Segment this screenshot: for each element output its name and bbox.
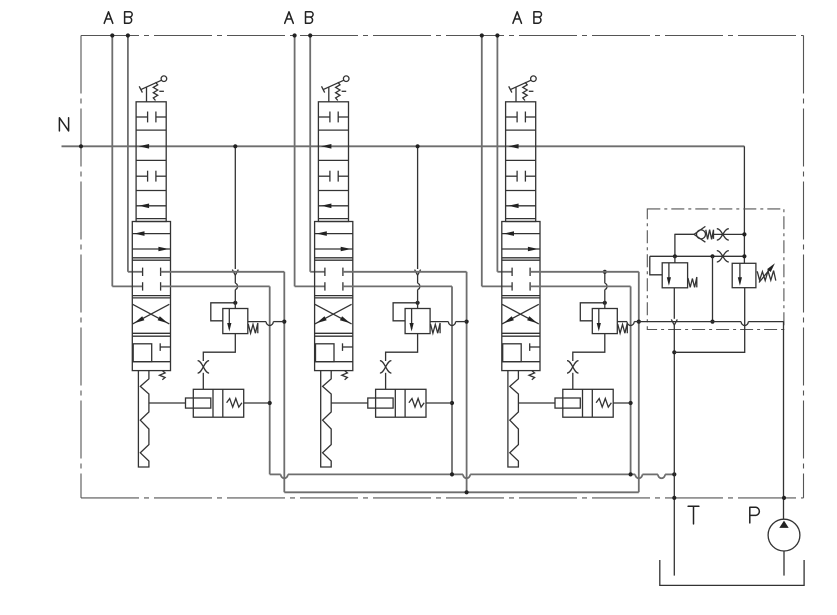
- label A section 3: [513, 12, 522, 23]
- stack cell 4 flow arrow V3: [506, 205, 536, 207]
- node reducing-valve outlet V1: [282, 320, 286, 324]
- pilot selector valve stack V2: [318, 102, 348, 222]
- spool cell parallel arrows V1: [132, 233, 170, 235]
- throttle orifice V3: [567, 361, 579, 374]
- orifice on check branch: [717, 229, 729, 240]
- wire upper work port section V3: [530, 271, 639, 273]
- node N crosses border: [79, 144, 83, 148]
- wire port-B riser section V3: [496, 36, 498, 272]
- pressure compensator V2: [376, 389, 426, 417]
- wire pump suction: [783, 551, 785, 576]
- spool centre cell port stubs V1: [142, 268, 144, 276]
- check valve spring: [706, 230, 714, 240]
- stack cell 1 blocked ports V1: [136, 116, 148, 118]
- spool centre cell port stubs V2: [324, 268, 326, 276]
- wire collector rail B: [284, 491, 639, 493]
- unloader valve: [662, 263, 687, 288]
- node A1 on manifold border: [110, 33, 114, 37]
- unloader pilot loop: [650, 256, 662, 275]
- reducing valve spring V2: [431, 323, 441, 333]
- wire port-B riser section V2: [309, 36, 311, 272]
- pressure compensator V3: [563, 389, 613, 417]
- spool end spring V2: [342, 371, 348, 380]
- spool bottom cell detail V2: [316, 344, 335, 362]
- wire lower work port section V1: [161, 285, 270, 287]
- node reducing-valve outlet V3: [637, 320, 641, 324]
- wire check/anticavitation branch: [675, 234, 694, 256]
- reducing valve spring V3: [618, 323, 628, 333]
- orifice on unloading gallery: [717, 251, 729, 262]
- wire compensator output section V3: [613, 402, 630, 404]
- stack cell 4 flow arrow V1: [136, 205, 166, 207]
- label T tank port: [688, 506, 699, 524]
- main relief valve: [732, 263, 756, 287]
- reducing valve spring V1: [248, 323, 258, 333]
- pump symbol: [768, 519, 800, 551]
- label B section 3: [534, 12, 542, 23]
- throttle orifice V1: [198, 361, 210, 374]
- wire lower work port section V2: [343, 285, 452, 287]
- compensator spring V3: [596, 399, 611, 408]
- wire unloader drain to tank line: [673, 288, 675, 319]
- compensator spring V2: [409, 399, 424, 408]
- pilot selector valve stack V1: [136, 102, 166, 222]
- wire pilot feed from N section V1: [234, 146, 236, 269]
- main relief adjustable spring: [757, 271, 776, 281]
- wire drop to rail A section V3: [630, 286, 632, 474]
- feedback spring linkage V3: [508, 371, 519, 467]
- wire compensator output section V1: [244, 402, 270, 404]
- node reducing-valve outlet V2: [465, 320, 469, 324]
- node A2 on manifold border: [293, 33, 297, 37]
- pressure reducing pilot valve V3: [592, 309, 617, 334]
- stack cell 3 blocked ports V2: [318, 175, 330, 177]
- wire drop to rail B section V3: [638, 272, 640, 493]
- wire pump riser: [783, 322, 785, 520]
- node rail A section V2 junction: [450, 472, 454, 476]
- node unloading gallery left: [673, 254, 677, 258]
- reducing valve pilot loop V3: [580, 303, 605, 321]
- wire collector rail A: [270, 473, 281, 475]
- pressure compensator V1: [193, 389, 243, 417]
- label B section 1: [125, 12, 133, 23]
- node rail B section V2 junction: [465, 490, 469, 494]
- spool cell crossed arrows V3: [502, 304, 539, 324]
- node check branch at main drop: [742, 232, 746, 236]
- spool bottom cell detail V3: [503, 344, 522, 362]
- spool cell crossed arrows V1: [133, 304, 170, 324]
- spool cell crossed arrows V2: [315, 304, 352, 324]
- reducing valve pilot loop V2: [393, 303, 418, 321]
- wire reducing valve output joins pump rail V3: [617, 321, 627, 323]
- node B1 on manifold border: [126, 33, 130, 37]
- unloader valve spring: [688, 277, 697, 287]
- main spool valve body V2: [315, 222, 353, 371]
- label N pilot supply: [59, 118, 68, 131]
- wire unloading gallery: [650, 255, 745, 257]
- wire N drop to relief block: [743, 146, 745, 263]
- main spool valve body V3: [502, 222, 540, 371]
- stack cell 2 flow arrow V1: [139, 144, 150, 149]
- reducing valve outlet to throttle V3: [573, 334, 605, 361]
- compensator sense line from spring linkage V3: [518, 402, 555, 404]
- label B section 2: [306, 12, 314, 23]
- spool end spring V3: [529, 371, 535, 380]
- stack cell 3 blocked ports V1: [136, 175, 148, 177]
- node rail A section V3 junction: [629, 472, 633, 476]
- spool end spring V1: [160, 371, 166, 380]
- stack cell 2 flow arrow V3: [508, 144, 518, 149]
- wire drop to rail A section V1: [269, 286, 271, 474]
- wire port-A riser section V1: [111, 36, 113, 287]
- node compensator outlet V1: [268, 401, 272, 405]
- reducing valve outlet to throttle V2: [386, 334, 418, 361]
- check valve ball and seat: [697, 230, 706, 239]
- wire tank line: [673, 474, 675, 575]
- node B2 on manifold border: [308, 33, 312, 37]
- node B3 on manifold border: [495, 33, 499, 37]
- compensator spring V1: [227, 399, 242, 408]
- wire pilot feed from N section V2: [417, 146, 419, 269]
- wire gallery branch to pump rail: [712, 256, 714, 321]
- spool cell parallel arrows V3: [502, 233, 540, 235]
- wire upper work port section V2: [343, 271, 467, 273]
- node compensator outlet V3: [629, 401, 633, 405]
- spool cell parallel arrows V2: [315, 233, 353, 235]
- reducing valve outlet to throttle V1: [203, 334, 235, 361]
- wire port-B riser section V1: [127, 36, 129, 272]
- wire reducing valve output section V1: [248, 321, 266, 323]
- label A section 1: [104, 12, 113, 23]
- node compensator outlet V2: [450, 401, 454, 405]
- wire port-A riser section V3: [481, 36, 483, 287]
- stack cell 1 blocked ports V3: [506, 116, 517, 118]
- wire lower work port section V3: [530, 285, 631, 287]
- wire upper work port section V1: [161, 271, 285, 273]
- compensator piston V2: [368, 398, 393, 408]
- pressure reducing pilot valve V2: [405, 309, 430, 334]
- stack cell 4 flow arrow V2: [318, 205, 348, 207]
- crossover hop V3 feed over lower port wire: [603, 283, 606, 289]
- roller-lever actuator of pilot valve V1: [139, 86, 142, 92]
- compensator piston V1: [186, 398, 211, 408]
- main spool valve body V1: [132, 222, 170, 371]
- wire compensator output section V2: [426, 402, 452, 404]
- wire port-A riser section V2: [294, 36, 296, 287]
- wire pump pressure rail: [639, 321, 741, 323]
- node drain collector: [672, 350, 676, 354]
- compensator piston V3: [555, 398, 580, 408]
- stack cell 1 blocked ports V2: [318, 116, 330, 118]
- wire N pilot supply line: [62, 145, 745, 147]
- node unloading gallery right: [742, 254, 746, 258]
- node A3 on manifold border: [480, 33, 484, 37]
- label P pump port: [750, 507, 760, 523]
- node pump riser crosses border: [782, 496, 786, 500]
- spool bottom cell detail V1: [133, 344, 152, 362]
- feedback spring linkage V2: [321, 371, 332, 467]
- stack cell 2 flow arrow V2: [321, 144, 332, 149]
- throttle orifice V2: [380, 361, 392, 374]
- wire drop to rail B section V2: [466, 272, 468, 493]
- node tank line crosses border: [672, 496, 676, 500]
- wire pilot feed tapped from port wire section V3: [604, 272, 606, 303]
- wire drop to rail A section V2: [451, 286, 453, 474]
- node unloading gallery branch: [710, 254, 714, 258]
- compensator sense line from spring linkage V1: [149, 402, 186, 404]
- pilot selector valve stack V3: [506, 102, 536, 222]
- node rail A to tank line: [672, 472, 676, 476]
- stack cell 3 blocked ports V3: [506, 175, 517, 177]
- label A section 2: [285, 12, 294, 23]
- reducing valve pilot loop V1: [211, 303, 236, 321]
- pressure reducing pilot valve V1: [223, 309, 248, 334]
- wire main relief drain: [674, 288, 744, 353]
- wire reducing valve output section V2: [430, 321, 448, 323]
- manifold enclosure border (dash-dot): [81, 36, 804, 498]
- wire drop to rail B section V1: [283, 272, 285, 493]
- relief block enclosure (dash-dot): [647, 209, 784, 330]
- compensator sense line from spring linkage V2: [331, 402, 368, 404]
- tank reservoir: [660, 560, 804, 585]
- roller-lever actuator of pilot valve V3: [509, 86, 512, 92]
- feedback spring linkage V1: [138, 371, 149, 467]
- node gallery branch at pump rail: [710, 320, 714, 324]
- roller-lever actuator of pilot valve V2: [322, 86, 325, 92]
- spool centre cell port stubs V3: [511, 268, 513, 276]
